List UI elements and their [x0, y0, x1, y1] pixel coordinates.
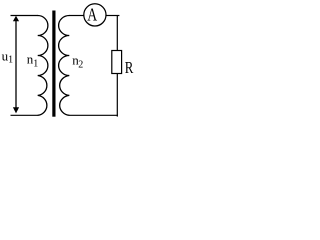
svg-text:1: 1	[33, 59, 38, 70]
transformer secondary winding n2	[59, 16, 70, 116]
transformer primary winding n1	[38, 16, 48, 116]
voltage arrow u1 (double-headed, source side)	[13, 16, 19, 114]
ammeter A	[84, 4, 106, 26]
svg-text:R: R	[125, 58, 134, 77]
label n2	[72, 52, 83, 70]
resistor R	[112, 51, 122, 74]
wire bottom-right (secondary to resistor)	[69, 114, 118, 116]
svg-text:A: A	[87, 5, 97, 25]
wire ammeter to top-right corner	[106, 15, 119, 17]
svg-text:2: 2	[78, 60, 83, 71]
wire secondary top to ammeter	[69, 15, 84, 17]
label u1	[2, 48, 14, 65]
wire right vertical upper	[116, 16, 118, 52]
transformer core	[52, 11, 55, 117]
wire top-left (arrow to primary)	[11, 15, 39, 17]
wire right vertical lower	[116, 74, 118, 117]
label n1	[27, 51, 38, 69]
wire bottom-left (arrow to primary)	[11, 114, 39, 116]
svg-text:1: 1	[8, 55, 13, 66]
